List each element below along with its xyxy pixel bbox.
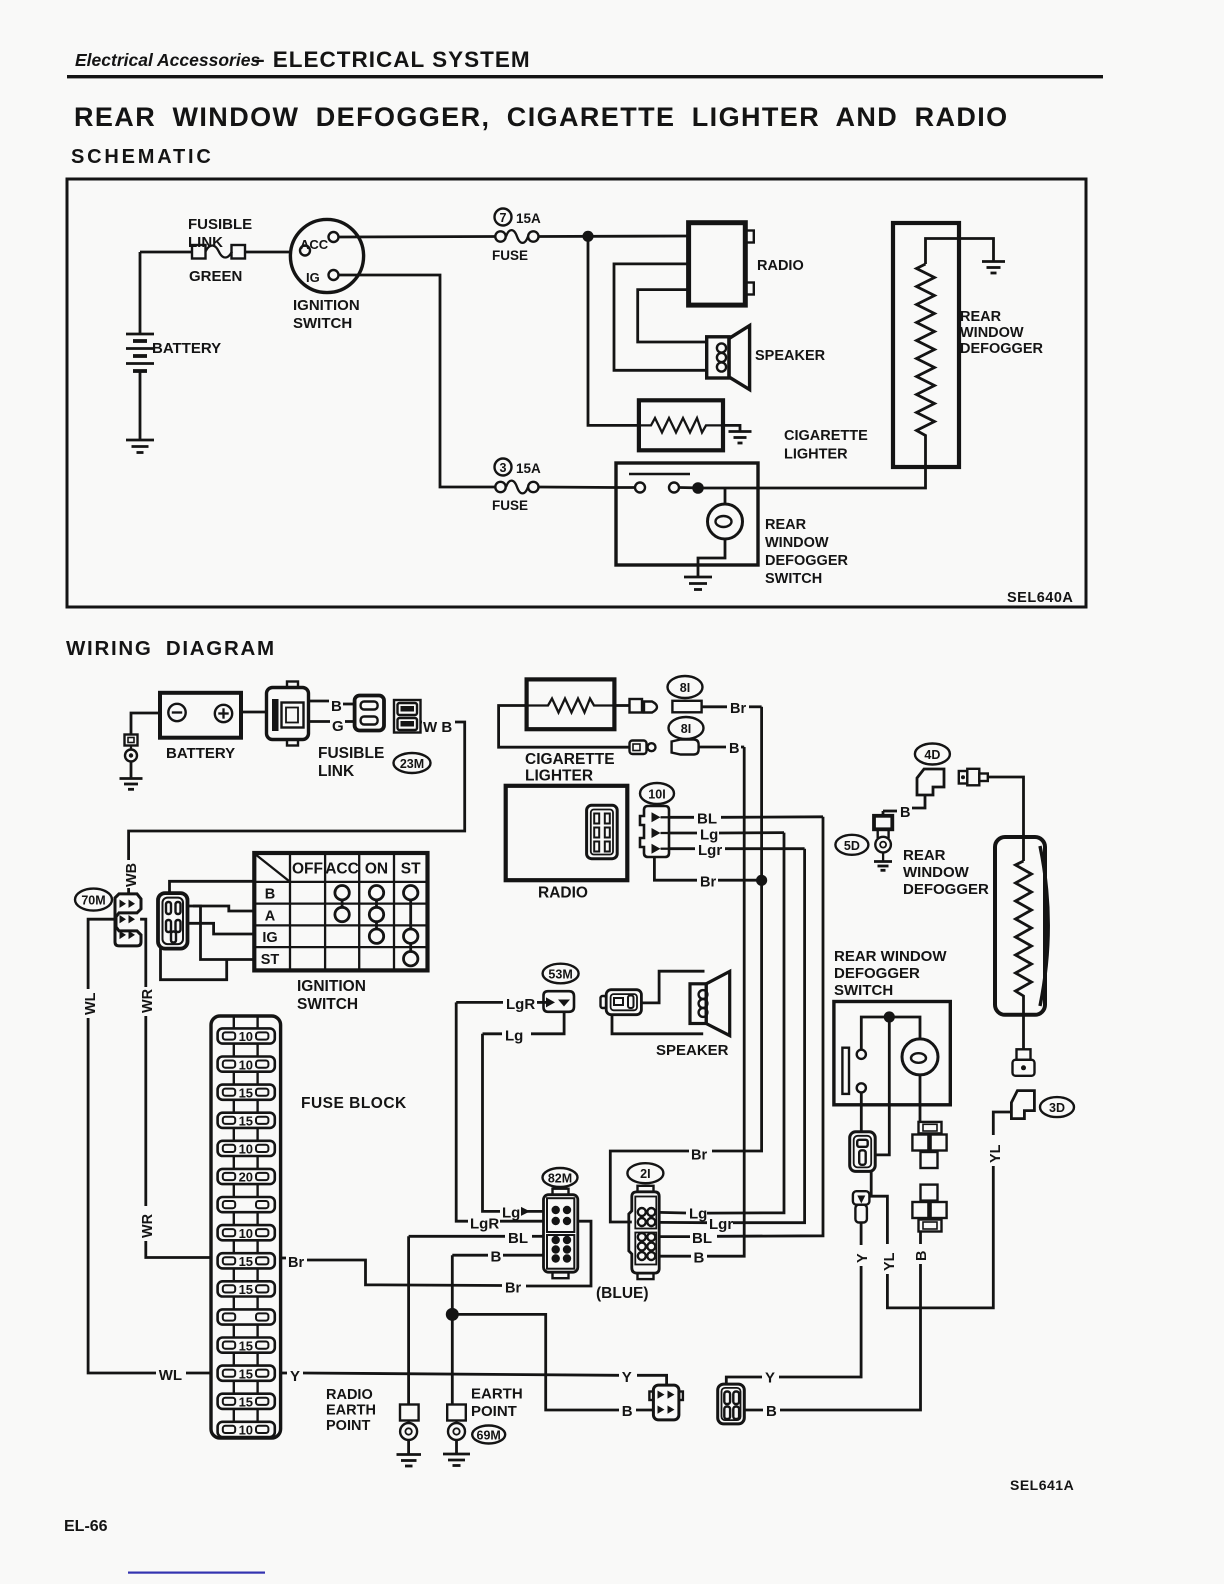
svg-text:82M: 82M [548,1172,572,1186]
svg-text:LINK: LINK [188,234,223,251]
wire Lgr from 10I [669,842,805,859]
svg-text:B: B [729,741,739,757]
wire fuse 7 to radio [539,235,689,238]
wire contact to connector [860,1092,863,1131]
wire defogger switch to defogger [704,444,926,488]
svg-text:DEFOGGER: DEFOGGER [834,965,920,982]
fuse block [211,1016,407,1438]
svg-text:POINT: POINT [471,1403,517,1420]
fuse 6 20 [218,1169,275,1197]
schematic [67,179,1086,607]
FUSIBLE LINK label [318,745,384,780]
wire B from lower 4-way [919,1232,922,1245]
ground (radio earth point) [397,1455,422,1467]
wire battery positive to fusible link holder [241,711,267,714]
wire WL from 70M [88,919,116,989]
svg-text:WB: WB [124,863,140,887]
svg-text:Lg: Lg [502,1205,520,1222]
rear window defogger element (wiring) [995,837,1048,1015]
svg-text:DEFOGGER: DEFOGGER [960,341,1044,357]
wire WR from 70M [140,919,146,987]
wire battery to fusible link [140,251,193,254]
svg-text:ACC: ACC [300,237,329,252]
connector ref 5D [835,835,868,855]
svg-text:10: 10 [239,1057,253,1072]
net label WR lower (vertical) [140,1213,156,1238]
ground (earth point 69M) [443,1454,470,1466]
svg-text:B: B [694,1250,705,1267]
speaker connector (wiring) [601,990,642,1015]
RADIO EARTH POINT label [326,1387,376,1434]
fuse 8 10 [218,1225,275,1253]
wire connector to table row B [170,881,255,893]
svg-text:BATTERY: BATTERY [166,745,235,762]
svg-text:G: G [332,718,344,735]
connector 70M (3 row pins) [115,894,141,946]
connector ref 10I [640,783,674,804]
svg-text:WL: WL [159,1367,182,1384]
svg-text:B: B [265,887,275,903]
svg-text:15A: 15A [516,211,541,226]
connector ref 8I (lower) [669,717,704,739]
cig lighter plug (upper) [630,699,658,713]
svg-text:15: 15 [239,1395,253,1410]
fuse 12 15 [218,1338,275,1366]
net label WR (vertical) [140,988,156,1013]
svg-text:SWITCH: SWITCH [834,982,893,999]
net label WL (horizontal) [159,1367,182,1384]
svg-text:B: B [766,1403,777,1420]
svg-text:RADIO: RADIO [757,258,804,274]
svg-text:RADIO: RADIO [538,885,588,902]
svg-text:LgR: LgR [506,996,535,1013]
svg-text:YL: YL [882,1252,898,1271]
ground (defogger top) [982,262,1005,274]
ground (battery, schematic) [126,440,154,453]
bottom connector (left, pins) [649,1385,683,1420]
net label Y (vertical) [855,1253,871,1263]
svg-text:OFF: OFF [292,861,323,878]
switch 4-way connector (upper) [912,1122,946,1168]
connector 82M [544,1189,578,1279]
svg-text:B: B [914,1251,930,1261]
radio (schematic) [689,223,804,305]
connector 8I terminal (upper) [672,701,701,713]
svg-text:CIGARETTE: CIGARETTE [525,751,615,768]
svg-text:FUSE: FUSE [492,248,528,263]
junction node (fuse7/cig lighter) [582,231,593,242]
wire Br from 8I [702,701,762,717]
wire Y fuse row to bottom connector [281,1368,667,1386]
fuse 7 15A [492,209,541,264]
svg-text:IG: IG [306,270,320,285]
wire B from 4D to 5D [883,795,925,821]
wire lamp to connector [919,1075,922,1122]
wire battery negative to terminal [131,713,160,735]
fusible link connector (2 slot) [355,696,384,731]
connector ref 4D [915,744,950,765]
svg-text:Lgr: Lgr [698,842,722,859]
wire Lg from 10I [669,827,784,844]
wire B into 82M [452,1249,543,1266]
cig lighter plug (lower) [630,741,656,755]
wire cig lighter to ground [723,425,740,431]
wire speaker connector to speaker (top) [641,971,704,1003]
svg-text:BL: BL [692,1230,712,1247]
fuse 2 10 [218,1057,275,1085]
svg-text:SEL641A: SEL641A [1010,1477,1074,1493]
svg-text:B: B [622,1403,633,1420]
net Lg vertical (53M to 82M) [483,1034,501,1212]
svg-text:DEFOGGER: DEFOGGER [903,881,989,898]
svg-text:CIGARETTE: CIGARETTE [784,428,868,444]
fuse 4 15 [218,1113,275,1141]
wire Lgr from 2I [659,1216,733,1233]
junction (Br net) [756,875,767,886]
wire WR down [144,1016,147,1206]
ground (defogger switch) [684,577,712,590]
wiring diagram bottom [281,948,1075,1493]
svg-text:Electrical Accessories: Electrical Accessories [75,50,260,70]
wire B from 8I [699,741,745,757]
connector 53M [544,991,575,1012]
fusible link connector (dark 2 slot) [394,700,421,733]
wire ACC to fuse 7 [339,235,496,238]
bottom connector (right, sockets) [718,1384,745,1424]
REAR WINDOW DEFOGGER SWITCH label [834,948,947,999]
svg-text:(BLUE): (BLUE) [596,1285,649,1302]
switch connector Y plug [853,1191,870,1222]
svg-text:10I: 10I [648,788,665,802]
fuse 9 15 [218,1253,275,1281]
wire WR into fuse block [146,1241,211,1258]
svg-text:5D: 5D [844,839,860,853]
wire junction to B bottom run [452,1314,619,1410]
wire WB run to 70M [129,722,465,860]
wire IG to fuse 3 [339,275,496,487]
svg-text:ST: ST [261,952,280,968]
battery terminal connector [125,735,138,779]
ground (5D) [874,862,892,871]
rear window defogger (schematic) [893,223,1044,467]
svg-text:Y: Y [622,1369,632,1386]
svg-text:LIGHTER: LIGHTER [784,447,848,463]
fuse 3 15A [492,459,541,514]
cig lighter return lead [499,706,630,748]
ignition switch table [254,853,427,1013]
switch connector (left) [850,1132,876,1172]
svg-text:4D: 4D [924,748,940,762]
wiring diagram right half [456,676,1074,1308]
connector ref 53M [543,964,579,984]
svg-text:53M: 53M [548,968,572,982]
connector ref 82M [543,1168,578,1187]
label (BLUE) [596,1285,649,1302]
net label WB (vertical) [124,863,140,887]
wire Br fuse to 82M feed [281,1221,591,1296]
svg-text:WL: WL [83,992,99,1015]
header rule [67,75,1103,78]
net label WL (vertical) [83,992,99,1015]
svg-text:REAR WINDOW: REAR WINDOW [834,948,947,965]
speaker (schematic) [707,326,826,390]
wire B into right bottom connector [744,1403,777,1420]
svg-text:Y: Y [765,1370,775,1387]
svg-text:B: B [331,698,342,715]
svg-text:WR: WR [140,1213,156,1238]
svg-text:FUSIBLE: FUSIBLE [188,216,252,233]
connector 3D boot [1011,1091,1034,1119]
net LgR vertical (53M to 82M) [456,1002,468,1221]
wire YL from 3D [993,1112,1011,1135]
svg-text:WIRING DIAGRAM: WIRING DIAGRAM [66,637,276,660]
svg-text:LgR: LgR [470,1216,499,1233]
switch 4-way connector (lower) [912,1185,946,1232]
svg-text:POINT: POINT [326,1418,370,1434]
net BL vertical (82M to radio earth) [407,1236,410,1404]
svg-text:15A: 15A [516,461,541,476]
wire WB into 70M [127,888,130,894]
junction (earth B net) [446,1308,459,1321]
svg-text:SCHEMATIC: SCHEMATIC [71,146,214,168]
ground (battery, wiring) [120,779,143,790]
svg-text:SWITCH: SWITCH [297,996,358,1013]
svg-text:Lgr: Lgr [709,1216,733,1233]
cigarette lighter (wiring) [525,679,615,784]
svg-text:Y: Y [855,1253,871,1263]
fuse 13 15 [218,1366,275,1394]
wire connector to table row A [188,906,255,911]
fuse 3 15 [218,1085,275,1113]
radio earth point connector [400,1405,419,1455]
svg-text:15: 15 [239,1366,253,1381]
connector ref 2I [627,1163,663,1183]
svg-text:10: 10 [239,1226,253,1241]
wire radio to speaker (upper) [614,264,707,370]
svg-text:3D: 3D [1049,1101,1065,1115]
fuse 10 15 [218,1281,275,1309]
wire feed to defogger [988,777,1024,861]
connector ref 23M [394,753,431,773]
net Lg vertical (10I to 2I) [707,833,784,1214]
svg-text:LIGHTER: LIGHTER [525,768,593,785]
net label YL (left, vertical) [882,1252,898,1271]
wire BL from 10I [669,811,823,828]
svg-text:REAR WINDOW DEFOGGER, CIGARETT: REAR WINDOW DEFOGGER, CIGARETTE LIGHTER … [74,102,1009,132]
wire WL into fuse block [186,1372,211,1375]
wire Br from 10I [654,857,761,890]
svg-text:Br: Br [691,1148,707,1164]
svg-text:ST: ST [401,861,421,878]
svg-text:SPEAKER: SPEAKER [755,348,826,364]
svg-text:Br: Br [288,1255,304,1271]
wire connector bottom loop [161,947,227,980]
svg-text:A: A [265,908,276,924]
wiring diagram [75,682,465,1439]
ignition switch (schematic) [290,219,363,332]
svg-text:SWITCH: SWITCH [293,315,352,332]
wire fusible link to ignition switch [245,251,291,254]
wire junction down to cigarette lighter [588,236,639,425]
ignition switch connector [158,893,188,949]
svg-text:EL-66: EL-66 [64,1518,108,1535]
earth point connector 69M [447,1405,466,1454]
svg-text:BATTERY: BATTERY [152,340,221,357]
fusible link holder connector [267,682,309,746]
svg-text:W B: W B [423,719,452,736]
wire B from 2I [659,1250,704,1267]
svg-text:Y: Y [290,1368,300,1385]
net B vertical (8I to 2I) [707,747,744,1256]
svg-text:70M: 70M [81,894,105,908]
svg-text:B: B [491,1249,502,1266]
EARTH POINT label [471,1386,523,1421]
svg-text:FUSE BLOCK: FUSE BLOCK [301,1095,407,1112]
wire Lg from 2I [659,1206,707,1223]
svg-text:GREEN: GREEN [189,268,242,285]
svg-text:15: 15 [239,1254,253,1269]
defogger feed connector [959,769,988,786]
connector ref 69M [472,1426,505,1444]
net label B (bottom left) [622,1403,654,1420]
svg-text:RADIO: RADIO [326,1387,373,1403]
figure code SEL641A [1010,1477,1074,1493]
connector ref 3D [1040,1097,1074,1117]
wire Y from plug [860,1223,863,1246]
svg-text:3: 3 [500,461,507,475]
svg-text:15: 15 [239,1114,253,1129]
wire LgR to 53M [456,996,546,1013]
svg-text:DEFOGGER: DEFOGGER [765,553,849,569]
svg-text:Br: Br [730,701,746,717]
svg-text:20: 20 [239,1170,253,1185]
connector 10I [640,806,669,857]
wire BL from 2I [659,1230,712,1247]
fuse 1 10 [218,1016,275,1057]
svg-text:10: 10 [239,1423,253,1438]
wire radio to speaker (lower) [638,290,707,342]
blue underline artifact [128,1572,265,1574]
svg-text:SPEAKER: SPEAKER [656,1042,729,1059]
schematic frame [67,179,1086,607]
figure code SEL640A [1007,590,1073,606]
wire YL up to switch connector [871,1171,887,1244]
wire Lg from 53M [483,1012,565,1045]
svg-text:REAR: REAR [960,309,1002,325]
battery (wiring) [160,693,241,762]
wire G from fusible link [309,718,355,735]
wire Y down to bottom run [779,1266,861,1377]
wire Br label (right) to 2I [610,1148,707,1223]
svg-text:8I: 8I [681,722,691,736]
svg-text:EARTH: EARTH [326,1403,376,1419]
wire B from fusible link [309,698,355,715]
svg-text:SWITCH: SWITCH [765,571,822,587]
svg-text:10: 10 [239,1029,253,1044]
cigarette lighter (schematic) [639,400,868,462]
net B vertical (82M to earth junction) [451,1255,454,1404]
battery B (schematic) [126,252,221,440]
wire BL into 82M [409,1230,544,1247]
connector 5D [874,811,892,862]
REAR WINDOW DEFOGGER label (wiring) [903,847,989,898]
wire fuse 3 to defogger switch [539,486,617,489]
svg-text:10: 10 [239,1142,253,1157]
svg-text:BL: BL [508,1230,528,1247]
svg-text:SEL640A: SEL640A [1007,590,1073,606]
svg-text:EARTH: EARTH [471,1386,523,1403]
svg-text:69M: 69M [477,1429,501,1443]
fuse 14 15 [218,1394,275,1422]
footer [64,1518,265,1574]
wire Lg into 82M [502,1205,544,1222]
wire Y into right bottom connector [726,1370,775,1387]
wire connector to table row ST [193,906,254,960]
rear window defogger switch (wiring) [834,1002,950,1105]
wire YL down and across [887,1166,993,1308]
wire B down to bottom run [780,1264,921,1410]
svg-text:Lg: Lg [689,1206,707,1223]
net Lgr vertical (10I to 2I) [733,849,805,1223]
svg-text:YL: YL [988,1144,1004,1163]
svg-text:IGNITION: IGNITION [293,297,360,314]
connector ref 70M [75,889,112,911]
net BL vertical (10I to 2I) [717,817,823,1237]
svg-text:8I: 8I [680,681,690,695]
svg-text:IGNITION: IGNITION [297,978,366,995]
speaker (wiring) [656,971,730,1059]
svg-text:2I: 2I [640,1167,650,1181]
svg-text:– ELECTRICAL SYSTEM: – ELECTRICAL SYSTEM [252,47,531,72]
svg-text:FUSIBLE: FUSIBLE [318,745,384,762]
svg-text:ACC: ACC [325,861,359,878]
wire LgR into 82M [470,1216,544,1233]
ground (cigarette lighter) [729,432,752,444]
connector 8I terminal (lower) [672,740,699,755]
net label YL (right, vertical) [988,1144,1004,1163]
svg-text:Br: Br [700,875,716,891]
fuse 11 (blank) [218,1309,275,1337]
wire connector to table row IG [188,923,255,934]
wire WL down to fuse block row [88,1018,156,1373]
fuse 7 (blank) [218,1197,275,1225]
svg-text:15: 15 [239,1338,253,1353]
svg-text:FUSE: FUSE [492,498,528,513]
svg-text:BL: BL [697,811,717,828]
svg-text:Lg: Lg [505,1028,523,1045]
svg-text:WINDOW: WINDOW [960,325,1024,341]
connector 4D boot [917,769,944,795]
net label B (vertical) [914,1251,930,1261]
fusible link (schematic) [188,216,252,285]
svg-text:23M: 23M [400,757,424,771]
svg-text:REAR: REAR [765,517,807,533]
radio (wiring) [506,786,628,902]
connector ref 8I (upper) [668,676,703,698]
svg-text:REAR: REAR [903,847,946,864]
wire cig lighter to plug [614,704,629,707]
connector 2I [629,1186,659,1279]
svg-text:WR: WR [140,988,156,1013]
svg-text:Lg: Lg [700,827,718,844]
header [66,47,1103,660]
svg-text:B: B [900,805,910,821]
fuse 15 10 [218,1422,275,1438]
svg-text:15: 15 [239,1282,253,1297]
defogger bottom plug [1013,1049,1035,1076]
fuse 5 10 [218,1141,275,1169]
svg-text:ON: ON [365,861,388,878]
